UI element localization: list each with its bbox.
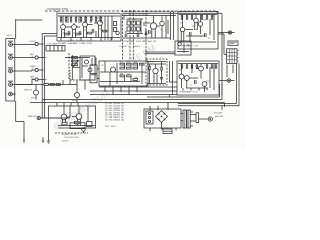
svg-text:R9: R9 — [80, 20, 82, 22]
wire: left vertical below panel to corner — [16, 101, 24, 122]
label: block B part refs — [126, 19, 162, 34]
svg-text:R1: R1 — [60, 20, 62, 22]
resistor R34 — [140, 63, 145, 65]
svg-text:Q13: Q13 — [195, 66, 198, 68]
resistor R42 — [186, 65, 187, 68]
wire: mid verticals — [170, 61, 178, 97]
svg-text:VR1: VR1 — [126, 19, 129, 21]
wire: tape pb line — [16, 84, 44, 86]
resistor R5 — [80, 16, 81, 23]
resistor R25 — [206, 15, 207, 20]
svg-text:R31: R31 — [120, 62, 123, 64]
rectifier bridge BR1 — [156, 111, 168, 123]
jack J5 — [9, 92, 16, 96]
transistor Q15 — [202, 82, 207, 87]
resistor R11 — [72, 57, 78, 59]
resistor R2 — [65, 16, 66, 23]
transistor Q4 — [98, 16, 103, 38]
relay box K1 — [175, 41, 191, 55]
transistor Q17 — [72, 85, 80, 103]
fuse F1 — [163, 129, 172, 134]
capacitor C15 — [160, 78, 163, 79]
svg-text:R33: R33 — [127, 62, 130, 64]
speaker terminal SP1a — [228, 41, 238, 45]
jack J3 — [8, 67, 13, 73]
transistor Q5 — [150, 16, 156, 39]
input terminal TAPE — [12, 75, 38, 84]
node dots phono — [63, 105, 88, 106]
resistor R56 — [161, 62, 162, 84]
svg-text:Q15: Q15 — [206, 81, 209, 83]
node dots block A — [61, 16, 102, 28]
wire: dashed sub-box — [70, 70, 95, 80]
svg-text:175-240V: 175-240V — [214, 113, 224, 115]
wire: left vertical above panel — [16, 19, 43, 39]
wire: D to bus drops — [105, 86, 137, 95]
transistor Q2 — [72, 23, 77, 38]
resistor R26 — [211, 15, 212, 20]
svg-text:VR2: VR2 — [133, 19, 136, 21]
wire: bus b5 — [42, 84, 222, 100]
svg-text:EQ AMP FLAT AMP TONE CONT: EQ AMP FLAT AMP TONE CONT — [58, 42, 93, 45]
power box — [144, 109, 181, 128]
capacitor C4 — [149, 30, 151, 34]
svg-text:TAPE REC: TAPE REC — [28, 115, 38, 118]
label: block F part refs — [179, 66, 209, 88]
resistor R17 — [88, 32, 92, 34]
node dots tape line — [47, 117, 65, 118]
wire: dash-dot vertical x122 — [122, 10, 124, 60]
wire: block B lower links — [124, 16, 145, 34]
svg-text:C14: C14 — [134, 77, 137, 79]
wire: block A ground ticks — [61, 38, 111, 41]
wire: D ground ticks — [103, 86, 146, 87]
resistor R36 — [127, 67, 132, 69]
wire: block B bottom rail — [123, 37, 170, 39]
transistor Q21 — [85, 60, 89, 64]
svg-text:R41: R41 — [179, 70, 182, 72]
resistor R38 — [120, 75, 125, 77]
svg-text:R35: R35 — [134, 62, 137, 64]
input terminal AUX — [12, 53, 38, 59]
wire: twin rails mid — [145, 52, 175, 54]
terminal T3 — [37, 116, 40, 119]
wire: block F top rail — [178, 63, 218, 65]
wire: block A left edge — [56, 11, 58, 41]
svg-text:LOW NOISE SEL: LOW NOISE SEL — [64, 137, 79, 139]
capacitor C2 — [79, 31, 81, 35]
wire: power feeds — [150, 103, 183, 132]
resistor R24 — [201, 15, 202, 20]
filter block box — [80, 56, 95, 80]
svg-text:C7: C7 — [190, 85, 192, 87]
capacitor C20 — [125, 34, 127, 38]
resistor R51 — [62, 122, 67, 125]
wire: bus b6 — [30, 103, 225, 108]
wire: block A mid rail — [58, 12, 120, 14]
transistor Q12 — [179, 74, 184, 79]
transistor Q7 — [180, 15, 185, 43]
transistor Q22 — [88, 68, 92, 72]
capacitor C6 — [205, 33, 207, 37]
wire: driver rails — [147, 62, 166, 84]
wire: block C output — [218, 32, 228, 34]
svg-text:R14: R14 — [97, 18, 100, 20]
svg-text:Q2: Q2 — [73, 33, 75, 35]
wire: bus b4 — [147, 84, 220, 97]
wire: input bus vertical 1 — [41, 34, 43, 119]
label: parts list — [105, 103, 124, 128]
aux box D2 — [90, 75, 97, 83]
jack panel box — [6, 39, 15, 101]
svg-text:C8: C8 — [208, 38, 210, 40]
node dots block D — [105, 72, 143, 73]
resistor R53 — [70, 123, 85, 129]
resistor R46 — [196, 65, 197, 68]
resistor R61 — [44, 84, 48, 86]
transistor Q9 — [198, 15, 202, 27]
transistor Q6 — [160, 16, 164, 39]
resistor R22 — [186, 15, 187, 20]
resistor R45 — [211, 65, 212, 68]
wire: block A bottom — [57, 40, 121, 42]
label: voltage text — [214, 113, 225, 118]
ground GND1 — [42, 137, 44, 142]
dash-dot vertical divider — [68, 53, 70, 80]
resistor R10 network — [114, 22, 120, 35]
wire: phono internals — [41, 106, 88, 121]
resistor R32 — [127, 63, 132, 65]
resistor R35 — [120, 67, 125, 69]
wire: dash-dot vertical x146 — [145, 10, 147, 60]
resistor R33 — [133, 63, 138, 65]
resistor R41 — [181, 65, 182, 68]
transistor Q10 — [111, 67, 116, 72]
transistor Q13 — [184, 76, 189, 81]
switch S1 box — [46, 46, 65, 52]
transistor Q18 — [61, 106, 67, 126]
resistor R52 — [75, 121, 80, 124]
wire: block B top rail — [123, 15, 176, 17]
wire: input bus vertical 2 — [43, 36, 45, 118]
resistor R16 — [76, 33, 80, 35]
transistor Q19 — [76, 106, 82, 126]
resistor R55 — [149, 64, 150, 84]
resistor R15 — [65, 33, 69, 35]
resistor R43 — [191, 65, 192, 68]
wire: bus b3 — [90, 94, 177, 96]
wire: block B inter-stage — [143, 16, 168, 39]
resistor R8 — [95, 16, 96, 23]
resistor R4 — [75, 16, 76, 23]
capacitor C1 — [68, 31, 70, 35]
svg-text:Q1: Q1 — [62, 33, 64, 35]
wire: terminal stubs — [38, 44, 44, 80]
ground arrow bottom-left — [23, 140, 25, 143]
wire: switch out — [65, 55, 90, 80]
transistor Q3 — [83, 16, 88, 38]
resistor network RN1 — [127, 21, 140, 31]
svg-text:VR: VR — [101, 65, 104, 67]
block F box — [177, 61, 219, 95]
resistor R44 — [206, 65, 207, 68]
svg-text:TAPE PB: TAPE PB — [24, 88, 33, 91]
transistor Q14 — [199, 66, 204, 71]
resistor R47 — [215, 65, 216, 68]
wire: block A inter-stage — [65, 16, 97, 38]
input terminal TUNER — [12, 66, 38, 72]
resistor R13 — [72, 64, 78, 66]
wire: block F ground ticks — [183, 88, 207, 91]
wire: block A right edge — [120, 13, 122, 41]
wire: block A inner verticals — [105, 16, 112, 40]
wire: plug feeds — [190, 112, 193, 126]
ground GND2 — [47, 141, 50, 144]
aux box D1 — [90, 65, 97, 74]
wire: phono emitter rail — [58, 125, 95, 127]
svg-text:– STANDARD TYPE: – STANDARD TYPE — [45, 8, 68, 11]
resistor R18 — [103, 30, 107, 32]
transformer TF1 — [183, 110, 190, 128]
resistor R6 — [85, 16, 86, 23]
wire: bus b7 — [178, 64, 237, 104]
speaker terminal block SPB — [227, 49, 240, 64]
svg-text:Q11: Q11 — [203, 20, 206, 22]
jack J4 — [8, 81, 13, 87]
wire: RN1 links — [127, 19, 143, 34]
wire: bottom-left vertical — [23, 122, 25, 141]
wire: block B right verticals — [171, 12, 174, 40]
transistor Q11 — [153, 64, 158, 84]
wire: phono bottom rail — [55, 132, 88, 134]
wire: tape line — [41, 117, 71, 119]
wire: filter internals — [82, 58, 92, 78]
svg-text:22K 4.7K 100 1K 560 33K: 22K 4.7K 100 1K 560 33K 2.2K — [124, 14, 150, 16]
resistor R40 — [133, 79, 138, 81]
svg-text:EQ AMP 2SC458: EQ AMP 2SC458 — [62, 133, 77, 136]
resistor R23 — [191, 15, 192, 20]
resistor R9 — [100, 16, 101, 23]
capacitor C5 — [190, 32, 192, 36]
diode D1 — [145, 29, 147, 36]
resistor R63 — [56, 84, 60, 86]
capacitor C3 — [92, 29, 94, 33]
resistor R62 — [50, 84, 54, 86]
wire: bus to amp top 2 — [44, 35, 57, 37]
jack J2 — [8, 54, 13, 60]
svg-text:IN: IN — [32, 68, 34, 70]
svg-text:Q3: Q3 — [84, 30, 86, 32]
wire: block C top rail — [179, 14, 217, 16]
svg-text:MUTE: MUTE — [31, 98, 37, 100]
transistor Q16 — [31, 85, 39, 100]
driver dashed box — [146, 59, 167, 85]
resistor R21 — [181, 15, 182, 20]
resistor R54 — [87, 122, 93, 127]
wire: phono drops from bus — [57, 103, 78, 107]
resistor R7 — [90, 16, 91, 23]
node dots block B — [146, 15, 167, 31]
svg-text:SEL-SET: SEL-SET — [215, 116, 224, 118]
node dots block C — [187, 14, 211, 37]
wire: block A top rail — [58, 15, 120, 17]
svg-text:Q8: Q8 — [160, 29, 162, 31]
svg-text:R5: R5 — [70, 20, 72, 22]
wire: SP2 drops — [227, 65, 233, 78]
svg-text:R.CH L.CH R.CH L.CH: R.CH L.CH R.CH L.CH — [68, 40, 90, 42]
svg-text:Q4: Q4 — [99, 29, 101, 31]
wire: phono left drop — [48, 106, 50, 141]
svg-text:C12: C12 — [127, 73, 130, 75]
svg-text:MUTE: MUTE — [72, 100, 78, 102]
wire: bus b1 — [99, 86, 177, 88]
wire: dash-dot vertical x133 — [132, 10, 134, 60]
svg-text:50/60Hz: 50/60Hz — [62, 141, 69, 143]
block D box — [99, 61, 148, 86]
transistor Q1 — [61, 16, 66, 38]
wire: filter drops — [49, 80, 78, 85]
svg-text:R21: R21 — [180, 23, 183, 25]
wire: block A bottom rail — [58, 37, 120, 39]
connector CN1 — [146, 111, 153, 124]
label: block C part refs — [180, 20, 210, 41]
wire: block F output — [219, 80, 227, 82]
svg-text:POWER AMP R CH: POWER AMP R CH — [179, 91, 198, 94]
resistor R3 — [70, 16, 71, 23]
input terminal PHONO — [12, 41, 38, 45]
potentiometer arrow VR3 — [73, 60, 79, 67]
capacitor C16 — [82, 128, 85, 133]
transistor Q8 — [194, 15, 199, 31]
svg-text:C3: C3 — [90, 20, 92, 22]
output terminal T1 — [218, 31, 235, 55]
resistor R12 — [72, 60, 78, 62]
label: block A part refs — [60, 18, 101, 35]
svg-text:POWER AMP R.CH BIAS ADJ VR: POWER AMP R.CH BIAS ADJ VR — [122, 40, 157, 43]
node dots on bus — [42, 43, 46, 80]
capacitor C7 — [195, 80, 197, 84]
resistor R31 — [120, 63, 125, 65]
wire: block C internals — [179, 15, 216, 43]
wire: block F internals — [182, 64, 215, 93]
wire: bus b8 — [178, 64, 239, 111]
resistor R37 — [133, 67, 138, 69]
wire: block B upper rail — [123, 11, 176, 13]
resistor R39 — [127, 75, 132, 77]
svg-text:PHONO 1: PHONO 1 — [120, 46, 130, 48]
wire: bus to amp top 1 — [42, 33, 57, 35]
wire: D links — [85, 58, 99, 90]
jack J1 — [8, 41, 13, 47]
node dots block F — [192, 68, 215, 79]
wire: top dashed border — [45, 10, 217, 12]
svg-text:INPUT: INPUT — [7, 35, 13, 37]
svg-text:Q9: Q9 — [192, 26, 194, 28]
wire: top frame second line — [123, 11, 222, 95]
svg-text:LEVEL: LEVEL — [134, 46, 141, 48]
wire: bus b2 — [90, 90, 177, 92]
AC plug P1 — [190, 113, 212, 123]
svg-text:LOW AMP: LOW AMP — [47, 42, 58, 45]
label: D part refs — [120, 62, 137, 79]
svg-text:Q8 2SD 2SD313 (E): Q8 2SD 2SD313 (E) — [105, 119, 124, 121]
block C box — [178, 12, 218, 50]
svg-text:D1-4 10D-1: D1-4 10D-1 — [105, 126, 116, 128]
wire: D inner rails — [100, 61, 146, 86]
wire: phono loop box — [48, 106, 96, 128]
svg-text:R38: R38 — [120, 73, 123, 75]
output terminal T2 — [227, 79, 234, 82]
wire: dash-dot vertical x130 — [129, 10, 131, 60]
resistor R1 — [60, 16, 61, 23]
capacitor C21 — [137, 34, 139, 38]
